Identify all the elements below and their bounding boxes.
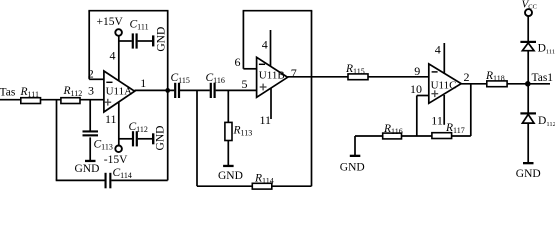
wire: U11A feedback loop right	[167, 11, 169, 91]
label D112	[538, 115, 555, 128]
wire: Tas1 node to D112	[527, 84, 529, 113]
svg-text:GND: GND	[218, 170, 243, 182]
wire: branch to C112	[119, 138, 132, 140]
label pin 4 U11B	[262, 38, 268, 52]
label R117	[445, 122, 465, 135]
svg-text:4: 4	[262, 38, 268, 52]
label R115	[345, 63, 365, 76]
svg-text:Tas: Tas	[0, 86, 16, 98]
wire: pin 4 stub U11A	[118, 36, 120, 81]
power terminal -15V	[115, 146, 122, 153]
svg-text:5: 5	[242, 77, 248, 91]
resistor R116	[383, 133, 402, 139]
wire: U11B feedback loop right	[311, 11, 313, 187]
svg-text:GND: GND	[75, 163, 100, 175]
wire: Vcc to D111	[527, 16, 529, 41]
label Tas1	[532, 72, 554, 84]
svg-text:-15V: -15V	[104, 154, 128, 166]
wire: pin 2 of U11A	[89, 78, 104, 80]
svg-text:10: 10	[410, 82, 422, 96]
minus sign U11A	[106, 81, 112, 83]
label pin 10	[410, 82, 422, 96]
svg-text:7: 7	[291, 66, 297, 80]
label U11C	[431, 79, 457, 91]
label Vcc	[522, 0, 537, 11]
power terminal +15V	[115, 29, 122, 36]
ground for D112	[523, 162, 534, 164]
capacitor C111	[132, 33, 155, 48]
label pin 3	[88, 84, 94, 98]
label pin 2 U11C	[464, 70, 470, 84]
wire: D112 to ground	[527, 123, 529, 162]
junction dot U11A output node	[165, 88, 170, 93]
svg-text:GND: GND	[516, 168, 541, 180]
svg-text:11: 11	[105, 112, 117, 126]
label R112	[63, 85, 83, 98]
wire: pin 11 stub U11A	[118, 102, 120, 146]
capacitor C112	[132, 131, 155, 146]
wire: U11C output pin 2 to R118	[461, 83, 487, 85]
junction dot Tas1 node	[525, 81, 531, 87]
ground for R116	[350, 136, 361, 157]
resistor R114	[252, 183, 271, 189]
wire: U11A feedback loop top	[88, 10, 168, 12]
label R113	[233, 125, 253, 138]
resistor R113	[225, 90, 232, 165]
op-amp U11B	[257, 57, 288, 97]
svg-text:1: 1	[140, 76, 146, 90]
label pin 9	[414, 64, 420, 78]
svg-text:Tas1: Tas1	[532, 72, 554, 84]
label -15V	[104, 154, 128, 166]
label C116	[206, 72, 225, 85]
wire: R116 R117 feedback line	[355, 135, 471, 137]
wire: U11B output pin 7 to R115	[288, 76, 348, 78]
svg-text:GND: GND	[155, 126, 167, 151]
wire: U11B feedback loop top	[243, 10, 313, 12]
label R114	[254, 173, 274, 186]
capacitor C114	[105, 173, 112, 189]
minus sign U11C	[432, 71, 438, 73]
label C112	[129, 121, 148, 134]
label pin 5	[242, 77, 248, 91]
wire: Tas1 stub	[528, 83, 550, 85]
wire: pin 4 stub U11C	[443, 43, 445, 74]
wire: Tas input to R111	[0, 99, 21, 101]
label GND C113	[75, 163, 100, 175]
wire: R115 to pin 9 of U11C	[368, 76, 429, 78]
wire: D111 to Tas1 node	[527, 51, 529, 84]
wire: pin 11 stub U11B	[270, 88, 272, 119]
capacitor C116	[210, 83, 216, 98]
wire: pin 10 stub	[417, 96, 429, 137]
wire: feedback line up to output	[470, 84, 472, 136]
label Tas input	[0, 86, 16, 98]
wire: U11A feedback loop left	[88, 11, 90, 80]
label pin 6	[235, 55, 241, 69]
wire: midpoint drop to R114 line	[196, 90, 198, 186]
label pin 7	[291, 66, 297, 80]
diode D111	[520, 42, 536, 51]
svg-text:2: 2	[464, 70, 470, 84]
wire: C115 to C116	[180, 89, 210, 91]
wire: branch to C111	[119, 40, 132, 42]
op-amp U11A	[104, 71, 135, 112]
svg-text:6: 6	[235, 55, 241, 69]
label GND R116	[340, 161, 365, 173]
svg-text:U11B: U11B	[259, 69, 285, 81]
label C114	[113, 167, 132, 180]
capacitor C115	[174, 83, 180, 98]
ground for R113	[223, 165, 234, 167]
label pin 4 U11C	[435, 42, 441, 56]
label pin 11 U11C	[431, 114, 443, 128]
svg-text:4: 4	[110, 49, 116, 63]
label D111	[538, 42, 555, 55]
wire: U11B feedback loop left	[242, 11, 244, 69]
label pin 1	[140, 76, 146, 90]
svg-text:U11C: U11C	[431, 79, 457, 91]
wire: R118 to Tas1 node	[507, 83, 528, 85]
wire: R111 to R112 with junction A	[41, 99, 61, 101]
wire: pin 6 of U11B	[243, 68, 256, 70]
wire: bottom line with C114	[56, 179, 168, 181]
label C111	[130, 18, 149, 31]
resistor R118	[487, 81, 507, 87]
wire: R114 bottom line	[197, 185, 312, 187]
diode D112	[520, 113, 536, 123]
label R118	[485, 70, 505, 83]
capacitor C113	[83, 100, 99, 161]
label C113	[94, 139, 113, 152]
wire: R112 to pin 3 of U11A	[80, 99, 104, 101]
label GND C111 rotated	[155, 27, 167, 52]
resistor R115	[348, 74, 368, 80]
label U11B	[259, 69, 285, 81]
wire: U11A output pin 1	[135, 89, 175, 91]
resistor R112	[61, 98, 80, 104]
resistor R111	[21, 98, 41, 104]
svg-text:U11A: U11A	[106, 86, 133, 98]
label GND D112	[516, 168, 541, 180]
minus sign U11B	[259, 63, 265, 65]
op-amp U11C	[429, 64, 461, 103]
svg-text:+15V: +15V	[97, 16, 124, 28]
label +15V	[97, 16, 124, 28]
svg-text:4: 4	[435, 42, 441, 56]
label U11A	[106, 86, 133, 98]
svg-text:GND: GND	[340, 161, 365, 173]
label GND R113	[218, 170, 243, 182]
svg-text:3: 3	[88, 84, 94, 98]
label pin 11 U11B	[260, 113, 272, 127]
label pin 11 U11A	[105, 112, 117, 126]
resistor R117	[432, 133, 452, 139]
wire: output node down to bottom line	[167, 90, 169, 180]
label C115	[171, 72, 190, 85]
label pin 2	[88, 67, 94, 81]
plus sign U11B	[260, 84, 267, 91]
label pin 4 U11A	[110, 49, 116, 63]
svg-text:GND: GND	[155, 27, 167, 52]
wire: pin 11 stub U11C	[443, 95, 445, 125]
power terminal Vcc	[525, 9, 532, 16]
svg-text:11: 11	[260, 113, 272, 127]
plus sign U11C	[431, 90, 438, 97]
wire: junction A drop to bottom line	[56, 100, 58, 181]
label R116	[383, 123, 403, 136]
svg-text:11: 11	[431, 114, 443, 128]
plus sign U11A	[104, 99, 111, 106]
wire: pin 4 stub U11B	[270, 30, 272, 67]
wire: C116 to pin 5 of U11B	[216, 89, 257, 91]
label GND C112 rotated	[155, 126, 167, 151]
ground for C113	[85, 160, 96, 162]
svg-text:9: 9	[414, 64, 420, 78]
label R111	[20, 86, 39, 99]
